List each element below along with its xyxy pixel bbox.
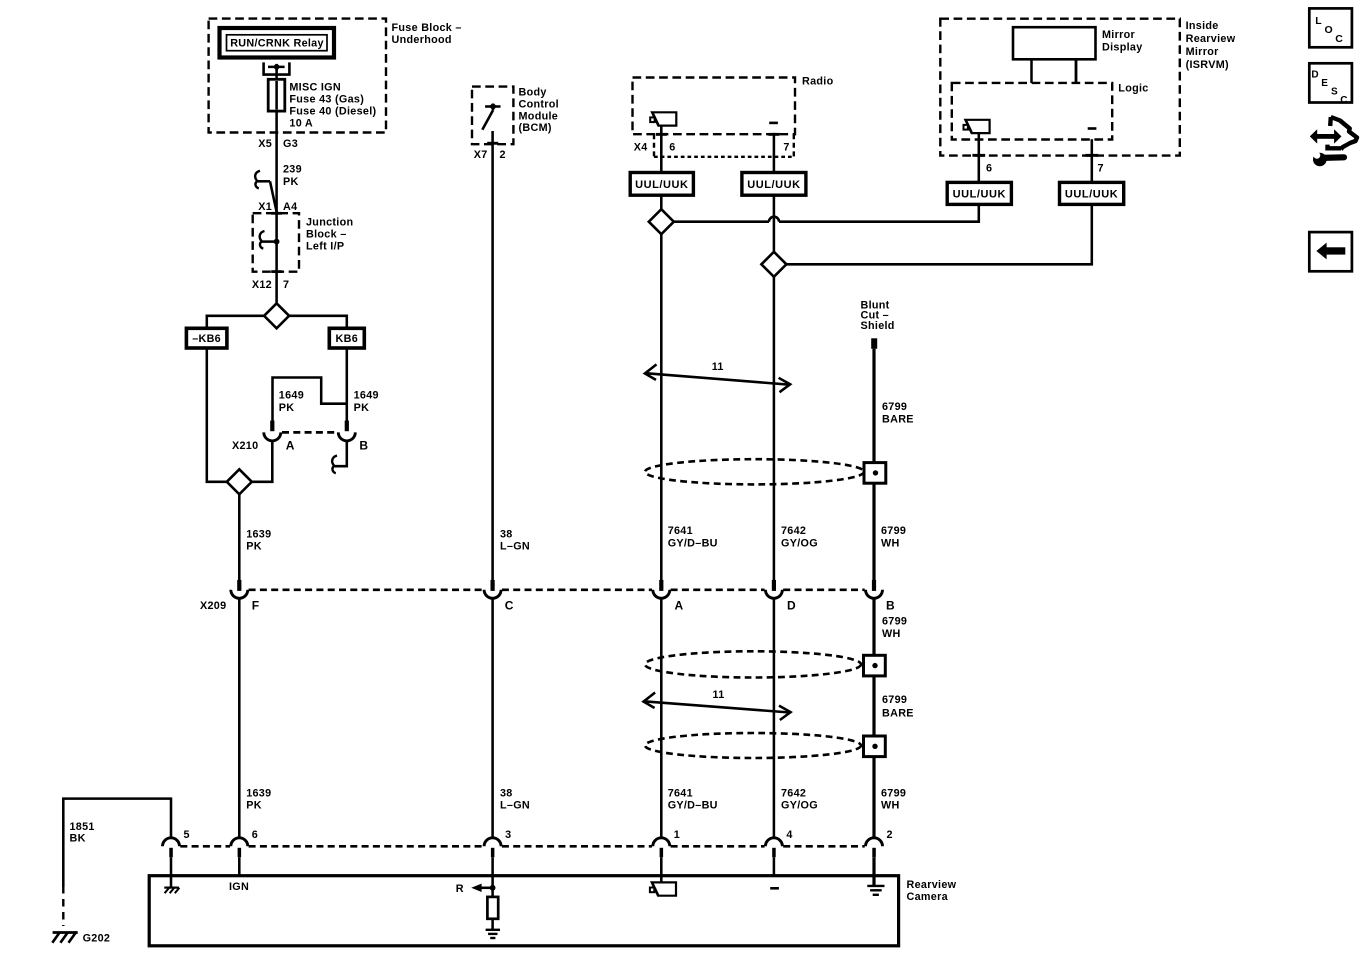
svg-text:Module: Module bbox=[519, 110, 559, 122]
junction block left I/P dashed box bbox=[253, 213, 299, 272]
svg-text:RUN/CRNK Relay: RUN/CRNK Relay bbox=[230, 37, 324, 49]
wire splice diagonal to X1 bbox=[270, 181, 277, 212]
svg-text:Control: Control bbox=[519, 98, 559, 110]
wire isrvm pin6 bbox=[978, 133, 981, 182]
icon box LOC bbox=[1309, 8, 1352, 47]
svg-text:6799: 6799 bbox=[881, 525, 906, 537]
inline harness box UUL/UUK isrvm right bbox=[1060, 182, 1124, 204]
svg-text:B: B bbox=[886, 599, 895, 613]
relay output terminal bracket bbox=[264, 62, 290, 74]
terminal tick X210 A bbox=[270, 421, 274, 432]
svg-text:7: 7 bbox=[783, 141, 789, 153]
fuse box KB6 bbox=[329, 328, 364, 348]
svg-text:X4: X4 bbox=[634, 141, 648, 153]
svg-text:6799: 6799 bbox=[881, 787, 906, 799]
svg-text:X210: X210 bbox=[232, 440, 258, 452]
icon box back arrow bbox=[1309, 232, 1352, 271]
svg-text:6799: 6799 bbox=[882, 616, 907, 628]
svg-text:BK: BK bbox=[70, 833, 86, 845]
wire X209 F down bbox=[238, 599, 241, 837]
svg-text:A4: A4 bbox=[283, 201, 297, 213]
svg-text:Camera: Camera bbox=[907, 891, 949, 903]
dashed connector line X210 bbox=[282, 431, 337, 434]
svg-text:Rearview: Rearview bbox=[1186, 33, 1236, 45]
svg-text:3: 3 bbox=[505, 829, 511, 841]
svg-text:6: 6 bbox=[669, 141, 675, 153]
splice diamond S upper bbox=[264, 303, 289, 328]
ground G202 bbox=[53, 931, 78, 934]
svg-text:6799: 6799 bbox=[882, 401, 907, 413]
ground pin 2 internal bbox=[867, 885, 884, 887]
connector cup pin 4 bbox=[765, 838, 782, 847]
svg-text:KB6: KB6 bbox=[336, 333, 359, 345]
inside rearview mirror dashed box bbox=[940, 19, 1180, 156]
wire pin6 into camera bbox=[238, 857, 241, 876]
pin tick isrvm 7 bbox=[1085, 154, 1098, 157]
svg-text:G3: G3 bbox=[283, 138, 298, 150]
fuse box -KB6 bbox=[186, 328, 227, 348]
svg-text:E: E bbox=[1321, 78, 1328, 89]
mirror display box bbox=[1013, 27, 1096, 59]
clip terminal below B bbox=[332, 456, 337, 474]
junction dot BCM switch bbox=[490, 104, 496, 110]
svg-text:1639: 1639 bbox=[246, 787, 271, 799]
svg-text:MISC IGN: MISC IGN bbox=[289, 82, 341, 94]
terminal tick X209 D bbox=[772, 580, 776, 591]
terminal tick X210 B bbox=[345, 421, 349, 432]
svg-text:UUL/UUK: UUL/UUK bbox=[635, 179, 688, 191]
svg-text:GY/D–BU: GY/D–BU bbox=[668, 800, 718, 812]
splice diamond radio7 bbox=[761, 252, 786, 277]
svg-text:C: C bbox=[505, 599, 514, 613]
radio dashed box bbox=[633, 78, 796, 135]
wire fuse to X5 bbox=[275, 111, 278, 303]
svg-text:F: F bbox=[252, 599, 260, 613]
wire radio7 through hop to diamond bbox=[773, 195, 776, 252]
splice diamond radio6 bbox=[649, 209, 674, 234]
resistor in camera bbox=[487, 897, 498, 919]
svg-text:WH: WH bbox=[881, 537, 900, 549]
svg-text:Display: Display bbox=[1102, 41, 1143, 53]
terminal tick pin 2 bbox=[872, 848, 876, 857]
arrow R reverse signal bbox=[481, 887, 493, 890]
connector cup X209 A bbox=[653, 590, 670, 599]
terminal tick pin 1 bbox=[660, 848, 664, 857]
minus sign in logic bbox=[1088, 127, 1097, 130]
wire radio6 to diamond bbox=[660, 195, 663, 209]
junction dot in junction block bbox=[274, 239, 280, 245]
svg-text:11: 11 bbox=[712, 361, 724, 373]
svg-text:G202: G202 bbox=[83, 933, 111, 945]
pin tick BCM bottom bbox=[487, 142, 498, 145]
svg-text:IGN: IGN bbox=[229, 881, 249, 893]
inline harness box UUL/UUK radio left bbox=[630, 173, 693, 196]
wire diamond6 down to X209 A bbox=[660, 234, 663, 580]
wire 1851 BK from G202 bbox=[62, 886, 64, 926]
svg-text:X1: X1 bbox=[258, 201, 272, 213]
switch contact bar in BCM bbox=[485, 105, 500, 108]
terminal tick X209 F bbox=[237, 580, 241, 591]
svg-text:PK: PK bbox=[354, 402, 370, 414]
connector cup pin 3 bbox=[484, 838, 501, 847]
wire below X210 B bbox=[335, 441, 347, 466]
pin tick isrvm 6 bbox=[972, 154, 985, 157]
wire X209 B down shield bbox=[872, 599, 875, 837]
wire radio pin6 bbox=[660, 126, 663, 173]
wire below X210 A to diamond bbox=[252, 441, 272, 482]
svg-text:WH: WH bbox=[881, 800, 900, 812]
svg-text:7: 7 bbox=[1098, 163, 1104, 175]
svg-text:Mirror: Mirror bbox=[1102, 29, 1135, 41]
shield ellipse 2 bbox=[645, 651, 861, 677]
svg-text:GY/D–BU: GY/D–BU bbox=[668, 537, 718, 549]
camera icon in radio bbox=[650, 112, 676, 125]
switch lever BCM bbox=[482, 110, 493, 130]
svg-text:BARE: BARE bbox=[882, 413, 914, 425]
shield ellipse 3 bbox=[645, 733, 861, 758]
svg-text:1: 1 bbox=[674, 829, 680, 841]
svg-text:C: C bbox=[1335, 33, 1343, 45]
svg-text:C: C bbox=[1340, 95, 1347, 106]
connector cup pin 2 bbox=[866, 838, 883, 847]
wire diamond to right branch bbox=[289, 316, 347, 329]
icon adjust double arrow bbox=[1315, 134, 1336, 139]
wire pin5 into camera bbox=[170, 857, 173, 887]
svg-text:PK: PK bbox=[279, 402, 295, 414]
svg-text:1649: 1649 bbox=[354, 390, 379, 402]
wire display leg left bbox=[1030, 59, 1033, 83]
pin tick junction block bottom bbox=[271, 270, 282, 273]
wire resistor to ground bbox=[491, 919, 494, 930]
svg-text:239: 239 bbox=[283, 164, 302, 176]
wire net B horizontal bbox=[786, 204, 1091, 264]
svg-text:(ISRVM): (ISRVM) bbox=[1186, 59, 1229, 71]
connector cup pin 6 bbox=[231, 838, 248, 847]
pin tick junction block top bbox=[271, 212, 282, 215]
svg-text:Fuse 43 (Gas): Fuse 43 (Gas) bbox=[289, 94, 364, 106]
wire KB6 down to X210 B bbox=[346, 348, 349, 422]
svg-text:Inside: Inside bbox=[1186, 20, 1219, 32]
icon wrench bbox=[1323, 154, 1345, 161]
svg-text:PK: PK bbox=[246, 800, 262, 812]
pin tick radio X4-6 bbox=[656, 133, 667, 136]
connector cup X209 C bbox=[484, 590, 501, 599]
shield square 2 bbox=[864, 655, 886, 676]
wire diamond to left branch bbox=[207, 316, 264, 329]
svg-text:WH: WH bbox=[882, 628, 901, 640]
svg-text:(BCM): (BCM) bbox=[519, 122, 552, 134]
svg-text:GY/OG: GY/OG bbox=[781, 800, 818, 812]
pin tick radio X4-7 bbox=[768, 133, 779, 136]
wire radio pin7 bbox=[773, 133, 776, 173]
splice diamond S lower bbox=[227, 469, 252, 494]
connector cup X210 B bbox=[338, 432, 355, 441]
connector X4 cell dashed bbox=[653, 134, 655, 157]
svg-text:Mirror: Mirror bbox=[1186, 46, 1219, 58]
inline harness box UUL/UUK radio right bbox=[742, 173, 806, 196]
svg-text:2: 2 bbox=[887, 829, 893, 841]
svg-text:5: 5 bbox=[184, 829, 190, 841]
svg-text:7641: 7641 bbox=[668, 787, 693, 799]
svg-text:A: A bbox=[286, 439, 295, 453]
svg-text:B: B bbox=[359, 439, 368, 453]
svg-text:Left I/P: Left I/P bbox=[306, 241, 344, 253]
svg-text:7: 7 bbox=[283, 279, 289, 291]
svg-text:4: 4 bbox=[786, 829, 792, 841]
twisted pair arrow 11 lower bbox=[644, 701, 790, 712]
wire X209 A down bbox=[660, 599, 663, 837]
svg-text:38: 38 bbox=[500, 787, 513, 799]
fuse block underhood dashed box bbox=[209, 19, 386, 133]
svg-text:L–GN: L–GN bbox=[500, 541, 530, 553]
blunt cut tick bbox=[871, 338, 877, 349]
svg-text:UUL/UUK: UUL/UUK bbox=[747, 179, 800, 191]
svg-text:X7: X7 bbox=[474, 149, 488, 161]
terminal tick pin 4 bbox=[772, 848, 776, 857]
svg-text:Underhood: Underhood bbox=[392, 34, 452, 46]
terminal tick pin 6 bbox=[238, 848, 242, 857]
svg-text:L: L bbox=[1315, 15, 1322, 27]
svg-text:Block –: Block – bbox=[306, 229, 347, 241]
svg-text:6: 6 bbox=[986, 163, 992, 175]
junction dot pin 3 bbox=[490, 885, 496, 891]
svg-text:–KB6: –KB6 bbox=[192, 333, 221, 345]
wire 1649 PK loop n-shape bbox=[273, 378, 347, 422]
svg-text:PK: PK bbox=[246, 541, 262, 553]
splice clip at X1 bbox=[255, 171, 260, 189]
connector cup X209 F bbox=[231, 590, 248, 599]
svg-text:Fuse 40 (Diesel): Fuse 40 (Diesel) bbox=[289, 106, 376, 118]
svg-text:X209: X209 bbox=[200, 600, 226, 612]
icon adjust arrow outline bbox=[1331, 117, 1357, 150]
wire BCM output bbox=[491, 131, 494, 580]
svg-text:Shield: Shield bbox=[861, 320, 895, 332]
shield square 3 bbox=[864, 736, 886, 757]
svg-text:X12: X12 bbox=[252, 279, 272, 291]
rearview camera box bbox=[149, 876, 898, 946]
svg-text:6: 6 bbox=[252, 829, 258, 841]
chassis ground pin 5 bbox=[164, 886, 179, 888]
svg-text:X5: X5 bbox=[258, 138, 272, 150]
svg-text:38: 38 bbox=[500, 528, 513, 540]
wire pin2 into camera bbox=[872, 857, 875, 886]
svg-text:D: D bbox=[787, 599, 796, 613]
svg-text:Rearview: Rearview bbox=[907, 879, 957, 891]
svg-text:R: R bbox=[456, 883, 464, 895]
wire net A horizontal with hop bbox=[674, 220, 769, 223]
relay output blade bar bbox=[268, 66, 285, 69]
dashed connector line X209 bbox=[249, 588, 484, 591]
svg-text:1639: 1639 bbox=[246, 528, 271, 540]
connector cup X210 A bbox=[264, 432, 281, 441]
camera icon in logic bbox=[964, 120, 990, 133]
svg-text:D: D bbox=[1311, 70, 1318, 81]
svg-text:BARE: BARE bbox=[882, 708, 914, 720]
body control module dashed box bbox=[472, 87, 513, 145]
wire X209 C down bbox=[491, 599, 494, 837]
svg-text:11: 11 bbox=[713, 689, 725, 701]
svg-text:A: A bbox=[675, 599, 684, 613]
svg-text:6799: 6799 bbox=[882, 694, 907, 706]
camera icon in camera box bbox=[650, 882, 676, 895]
svg-text:O: O bbox=[1325, 24, 1333, 36]
terminal tick X209 B bbox=[872, 580, 876, 591]
shield square 1 bbox=[864, 463, 886, 484]
connector cup X209 D bbox=[765, 590, 782, 599]
relay K RUN/CRNK Relay box bbox=[220, 28, 335, 58]
svg-text:PK: PK bbox=[283, 176, 299, 188]
connector cup X209 B bbox=[866, 590, 883, 599]
wire pin3 into camera bbox=[491, 857, 494, 897]
ground pin 3 internal bbox=[486, 929, 500, 931]
wire 6799 shield upper bbox=[872, 349, 875, 581]
svg-text:1851: 1851 bbox=[70, 821, 95, 833]
shield ellipse 1 bbox=[645, 459, 864, 484]
terminal tick X209 A bbox=[659, 580, 663, 591]
svg-text:Logic: Logic bbox=[1118, 82, 1148, 94]
twisted pair arrow 11 upper bbox=[645, 373, 789, 385]
wire diamond7 down to X209 D bbox=[773, 277, 776, 581]
wire diamond down to X209 F bbox=[238, 494, 241, 580]
wire -KB6 down to splice diamond lower bbox=[207, 348, 227, 482]
svg-text:L–GN: L–GN bbox=[500, 800, 530, 812]
svg-text:Junction: Junction bbox=[306, 217, 353, 229]
junction dot relay output bbox=[274, 64, 280, 70]
svg-text:7642: 7642 bbox=[781, 525, 806, 537]
svg-text:7642: 7642 bbox=[781, 787, 806, 799]
logic dashed box bbox=[952, 83, 1112, 140]
svg-text:1649: 1649 bbox=[279, 390, 304, 402]
svg-text:UUL/UUK: UUL/UUK bbox=[1065, 188, 1118, 200]
icon box DESC bbox=[1309, 63, 1352, 102]
svg-text:UUL/UUK: UUL/UUK bbox=[953, 188, 1006, 200]
inline harness box UUL/UUK isrvm left bbox=[947, 182, 1011, 204]
wire pin1 into camera bbox=[660, 857, 663, 882]
wire relay to fuse bbox=[275, 67, 278, 79]
wire X209 D down bbox=[773, 599, 776, 837]
terminal tick pin 3 bbox=[491, 848, 495, 857]
terminal tick X209 C bbox=[491, 580, 495, 591]
connector cup pin 1 bbox=[653, 838, 670, 847]
svg-text:10 A: 10 A bbox=[289, 117, 313, 129]
minus sign in radio bbox=[769, 122, 778, 125]
connector cup pin 5 bbox=[163, 838, 180, 847]
wire isrvm pin7 bbox=[1091, 139, 1094, 182]
svg-text:7641: 7641 bbox=[668, 525, 693, 537]
svg-text:S: S bbox=[1331, 87, 1338, 98]
svg-text:Fuse Block –: Fuse Block – bbox=[392, 22, 462, 34]
svg-text:GY/OG: GY/OG bbox=[781, 537, 818, 549]
splice clip inside junction block bbox=[260, 231, 265, 249]
terminal tick pin 5 bbox=[169, 848, 173, 857]
minus sign pin 4 bbox=[770, 887, 779, 890]
wire pin4 into camera bbox=[773, 857, 776, 876]
svg-text:Radio: Radio bbox=[802, 76, 834, 88]
dashed connector line camera bbox=[180, 845, 230, 848]
svg-text:Body: Body bbox=[519, 87, 547, 99]
wire display leg right bbox=[1075, 59, 1078, 83]
fuse MISC IGN F43/F40 10A bbox=[268, 79, 285, 111]
svg-text:2: 2 bbox=[500, 149, 506, 161]
